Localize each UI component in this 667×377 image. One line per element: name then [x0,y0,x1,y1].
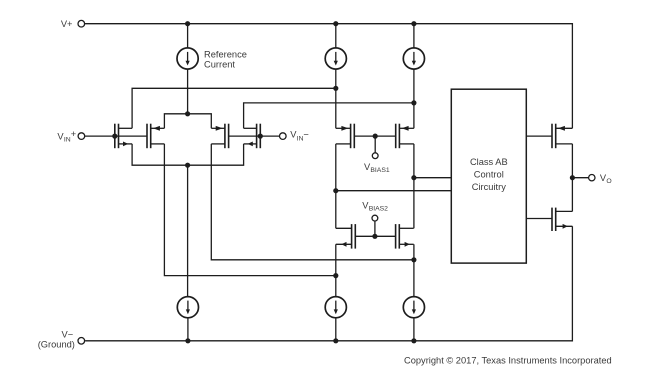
transistor Q3 (PMOS, VIN- inner) [225,124,229,149]
wire I4 to V- rail [187,318,189,341]
wire VBIAS1 net Q5-Q6 gates [354,135,395,137]
V- terminal [78,338,85,345]
svg-text:−: − [303,129,308,139]
svg-text:Circuitry: Circuitry [472,182,506,192]
current source I5 [325,297,346,318]
wire I6 to V- rail [413,318,415,341]
wire box to Q10 gate [526,218,552,220]
transistor Q7 (NMOS cascode, VBIAS2 left) [352,224,356,249]
svg-text:Copyright © 2017, Texas Instru: Copyright © 2017, Texas Instruments Inco… [404,355,612,365]
wire VBIAS2 net Q7-Q8 gates [355,235,395,237]
wire VBIAS2 stub [374,221,376,236]
junction top rail / ref current [185,21,190,26]
junction VO [570,175,575,180]
wire NMOS pair sources join [132,144,244,165]
svg-text:IN: IN [64,136,71,143]
junction V- rail / I6 [411,338,416,343]
wire Q9 drain to Q10 drain (VO node) [571,144,573,212]
junction VIN+ / Q1 gate [112,134,117,139]
wire Q3 gate to VIN- [229,135,280,137]
junction Q5/Q7 drains to box [333,188,338,193]
wire ref current to input pair sources [187,69,189,114]
transistor Q4 (NMOS, VIN- outer) [257,124,261,149]
wire box to Q9 gate [526,135,552,137]
wire VIN+ to Q1/Q2 gates [85,135,147,137]
VBIAS2 terminal [372,215,378,221]
current source I3 [403,48,424,69]
wire I5 to V- rail [335,318,337,341]
svg-text:BIAS2: BIAS2 [369,206,388,213]
VO terminal [589,175,595,181]
transistor Q8 (NMOS cascode, VBIAS2 right) [396,224,400,249]
junction ref current / PMOS sources [185,111,190,116]
svg-text:Control: Control [474,170,504,180]
wire I2 down to Q5 source [335,69,337,128]
current source I4 (tail) [177,297,198,318]
junction node B (Q4 drain / I3) [411,100,416,105]
junction node A (Q1 drain / I2) [333,86,338,91]
junction VBIAS2 [372,234,377,239]
wire VBIAS1 stub [374,136,376,153]
wire ref current top stub [187,24,189,48]
junction top rail / current source I3 [411,21,416,26]
transistor Q6 (PMOS cascode, VBIAS1 right) [396,124,400,149]
transistor Q9 (PMOS output) [552,124,556,149]
svg-text:+: + [71,129,76,139]
wire I3 down to Q6 source [413,69,415,128]
svg-text:BIAS1: BIAS1 [370,167,389,174]
junction V- rail / I4 [185,338,190,343]
svg-text:Class AB: Class AB [470,157,508,167]
wire V+ rail [85,24,573,129]
wire Q8 source down to I6 [413,244,415,296]
svg-text:O: O [606,178,611,185]
wire Q3 drain down [211,144,414,260]
transistor Q1 (NMOS, VIN+ outer) [115,124,119,149]
junction Q3 drain / Q8 source / I6 [411,257,416,262]
Class AB Control Circuitry box U1 [451,89,526,263]
wire node to Class AB box lower input [336,190,452,192]
svg-text:Reference: Reference [204,50,247,60]
wire Q2 drain down [164,144,335,276]
junction Q2 drain / Q7 source / I5 [333,273,338,278]
junction Q6/Q8 drains to box [411,175,416,180]
wire Q5 drain to Q7 drain [335,144,337,228]
wire I2 top stub [335,24,337,48]
VBIAS1 terminal [372,153,378,159]
junction VBIAS1 [373,134,378,139]
transistor Q10 (NMOS output) [552,208,556,231]
current source I2 [325,48,346,69]
wire PMOS pair sources to ref current [164,114,211,129]
svg-text:Current: Current [204,60,235,70]
VIN- terminal [280,133,287,140]
wire Q7 source down to I5 [335,244,337,296]
wire node to Class AB box upper input [414,177,451,179]
current source I1 reference [177,48,198,69]
svg-text:V−: V− [62,329,74,339]
wire Q4 drain up to node B [244,103,414,128]
svg-text:V+: V+ [61,19,73,29]
junction V- rail / I5 [333,338,338,343]
junction VIN- / Q4 gate [258,134,263,139]
wire Q6 drain to Q8 drain [413,144,415,228]
V+ terminal [78,20,85,27]
svg-text:(Ground): (Ground) [38,340,75,350]
VIN+ terminal [78,133,85,140]
wire I3 top stub [413,24,415,48]
current source I6 [403,297,424,318]
wire VO node to terminal [572,177,588,179]
transistor Q2 (PMOS, VIN+ inner) [147,124,151,149]
junction top rail / current source I2 [333,21,338,26]
junction NMOS sources / tail [185,163,190,168]
wire Q1 drain up to node A [132,88,336,128]
wire V- rail [85,226,572,340]
transistor Q5 (PMOS cascode, VBIAS1 left) [351,124,355,149]
wire tail down to I4 [187,165,189,296]
